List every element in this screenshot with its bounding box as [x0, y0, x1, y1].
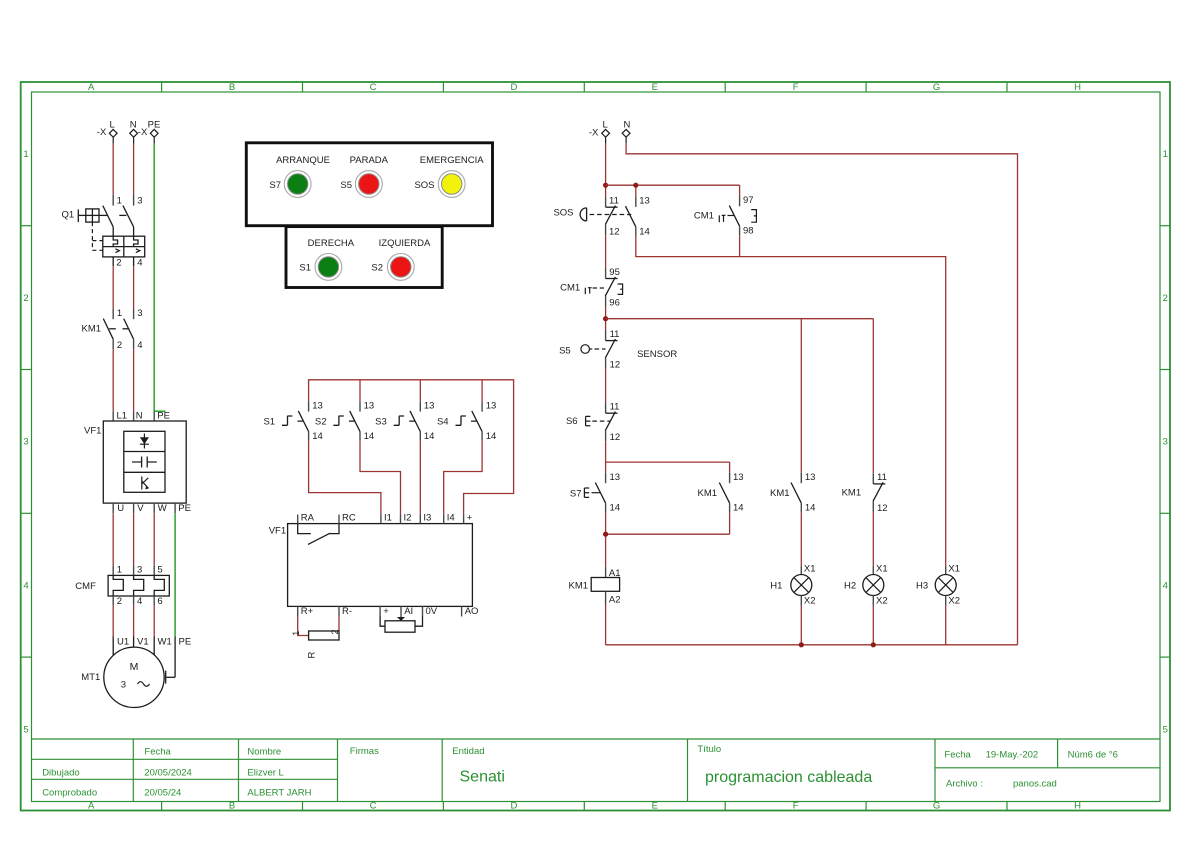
- svg-text:V: V: [137, 503, 144, 514]
- pushbutton S2 contact 13-14: [315, 400, 374, 442]
- svg-text:AO: AO: [465, 606, 479, 617]
- wire S3 to VF1 I3: [419, 441, 421, 515]
- wire PE to motor: [166, 637, 175, 684]
- svg-text:KM1: KM1: [698, 488, 718, 499]
- svg-text:Fecha: Fecha: [944, 749, 971, 760]
- svg-text:X1: X1: [948, 564, 960, 575]
- svg-text:A2: A2: [609, 594, 621, 605]
- svg-text:Firmas: Firmas: [350, 746, 379, 757]
- svg-text:Q1: Q1: [62, 210, 75, 221]
- wire CM1 98 down to rung: [739, 235, 741, 256]
- svg-text:4: 4: [137, 257, 142, 268]
- VF1 terminal I4: [444, 513, 455, 524]
- svg-text:R: R: [307, 652, 318, 659]
- svg-text:X2: X2: [948, 595, 960, 606]
- svg-text:W: W: [158, 503, 167, 514]
- pushbutton S2 (IZQUIERDA): [371, 254, 414, 281]
- svg-text:S1: S1: [263, 417, 275, 428]
- wire R+ to braking resistor: [298, 617, 309, 636]
- svg-text:Senati: Senati: [460, 769, 505, 786]
- wire rung 2 (to KM1 contacts): [606, 319, 874, 474]
- svg-text:ALBERT JARH: ALBERT JARH: [247, 788, 311, 799]
- svg-text:V1: V1: [137, 637, 149, 648]
- svg-text:CMF: CMF: [75, 581, 96, 592]
- svg-text:13: 13: [424, 400, 435, 411]
- VF1 terminal I2: [401, 513, 412, 524]
- VF1 internal relay contact RA-RC: [298, 524, 339, 545]
- svg-text:G: G: [933, 82, 940, 93]
- VF1 terminal R+: [298, 606, 314, 617]
- svg-text:11: 11: [877, 472, 887, 483]
- svg-text:1: 1: [117, 196, 122, 207]
- node junction SOS 13 branch: [633, 183, 638, 188]
- emergency stop SOS NC contact 11-12: [605, 196, 619, 238]
- svg-text:13: 13: [639, 196, 650, 207]
- svg-text:A1: A1: [609, 568, 621, 579]
- svg-text:I1: I1: [384, 513, 392, 524]
- wire Q1 to KM1 (pole 1): [112, 266, 114, 308]
- svg-text:+: +: [383, 606, 389, 617]
- svg-text:Nombre: Nombre: [247, 747, 281, 758]
- node junction L / rung 1: [603, 183, 608, 188]
- svg-text:M: M: [130, 661, 139, 673]
- svg-text:1: 1: [117, 308, 122, 319]
- coil KM1: [569, 567, 621, 605]
- thermal relay CM1 NC contact 95-96: [560, 267, 623, 309]
- svg-text:4: 4: [137, 340, 142, 351]
- svg-text:S3: S3: [375, 417, 387, 428]
- wire VF1 W to CMF: [153, 513, 155, 565]
- wire H2 to N rail: [872, 606, 874, 645]
- svg-text:VF1: VF1: [269, 526, 286, 537]
- VF1 terminal AI: [401, 606, 413, 617]
- contactor KM1 aux NC contact 11-12 (to H2): [842, 472, 888, 514]
- svg-text:E: E: [652, 82, 658, 93]
- wire bus drop S3: [419, 380, 421, 402]
- contactor KM1 main contacts: [82, 308, 143, 351]
- svg-text:2: 2: [117, 596, 122, 607]
- svg-text:-X: -X: [138, 127, 148, 138]
- pushbutton S7 NO contact 13-14: [595, 472, 620, 514]
- svg-text:2: 2: [1163, 293, 1168, 304]
- svg-text:KM1: KM1: [842, 488, 862, 499]
- svg-text:S5: S5: [340, 180, 352, 191]
- svg-text:98: 98: [743, 226, 754, 237]
- svg-text:D: D: [510, 82, 517, 93]
- svg-text:A: A: [88, 801, 95, 812]
- svg-text:D: D: [510, 801, 517, 812]
- wire KM1 NC to H2: [872, 512, 874, 566]
- svg-text:11: 11: [609, 196, 619, 207]
- wire VF1 V to CMF: [133, 513, 135, 565]
- svg-text:MT1: MT1: [81, 672, 100, 683]
- svg-text:13: 13: [364, 400, 375, 411]
- VF1 terminal + (bottom): [380, 606, 389, 617]
- wire KM1 aux to H1: [800, 512, 802, 566]
- svg-text:3: 3: [137, 308, 142, 319]
- svg-text:1: 1: [291, 631, 301, 636]
- contactor CMF contacts: [75, 565, 169, 608]
- svg-text:2: 2: [116, 257, 121, 268]
- svg-text:KM1: KM1: [770, 488, 790, 499]
- svg-text:SOS: SOS: [414, 180, 434, 191]
- wire L phase to Q1: [112, 144, 114, 195]
- wire bus drop S2: [359, 380, 361, 402]
- svg-text:U1: U1: [117, 637, 129, 648]
- pushbutton SOS (EMERGENCIA): [414, 171, 465, 198]
- svg-text:RA: RA: [301, 513, 315, 524]
- svg-text:VF1: VF1: [84, 426, 101, 437]
- pushbutton panel ARRANQUE/PARADA/EMERGENCIA: [246, 143, 492, 226]
- svg-text:E: E: [652, 801, 658, 812]
- svg-text:A: A: [88, 82, 95, 93]
- svg-text:X2: X2: [804, 595, 816, 606]
- svg-text:2: 2: [117, 340, 122, 351]
- pushbutton S1 contact 13-14: [263, 400, 322, 442]
- node junction H2 on rail: [871, 642, 876, 647]
- wire VF1 U to CMF: [112, 513, 114, 565]
- svg-text:3: 3: [121, 680, 126, 691]
- svg-text:12: 12: [610, 432, 621, 443]
- braking resistor R: [291, 629, 340, 658]
- terminal -X L (control): [589, 119, 610, 143]
- svg-text:H: H: [1074, 801, 1081, 812]
- svg-text:Comprobado: Comprobado: [42, 788, 97, 799]
- svg-text:0V: 0V: [426, 606, 438, 617]
- node junction seal-in: [603, 532, 608, 537]
- svg-text:14: 14: [312, 431, 323, 442]
- svg-text:ARRANQUE: ARRANQUE: [276, 155, 330, 166]
- svg-text:R-: R-: [342, 606, 352, 617]
- svg-text:CM1: CM1: [560, 283, 580, 294]
- wire Q1 to KM1 (pole 2): [133, 266, 135, 308]
- svg-text:L: L: [603, 119, 608, 130]
- svg-text:S6: S6: [566, 416, 578, 427]
- wire CM1 96 to junction: [605, 307, 607, 331]
- svg-text:PE: PE: [148, 119, 161, 130]
- svg-text:G: G: [933, 801, 940, 812]
- svg-text:12: 12: [609, 226, 620, 237]
- svg-text:5: 5: [1163, 724, 1168, 735]
- emergency stop SOS NO contact 13-14: [626, 196, 650, 238]
- potentiometer on AI: [380, 617, 422, 633]
- svg-text:AI: AI: [404, 606, 413, 617]
- svg-text:2: 2: [330, 629, 340, 634]
- VF1 terminal R-: [339, 606, 352, 617]
- wire CMF to motor W1: [153, 605, 155, 655]
- svg-text:PE: PE: [179, 637, 192, 648]
- svg-text:Archivo :: Archivo :: [946, 779, 983, 790]
- svg-text:W1: W1: [158, 637, 172, 648]
- wire S5 to S6: [605, 369, 607, 403]
- svg-text:5: 5: [23, 724, 28, 735]
- VF1 terminal RA: [298, 513, 315, 524]
- svg-text:6: 6: [157, 596, 162, 607]
- svg-text:RC: RC: [342, 513, 356, 524]
- svg-text:12: 12: [610, 360, 621, 371]
- svg-text:14: 14: [424, 431, 435, 442]
- lamp H3: [916, 564, 960, 607]
- svg-text:1: 1: [23, 149, 28, 160]
- terminal -X L: [97, 119, 117, 144]
- svg-text:PARADA: PARADA: [350, 155, 389, 166]
- svg-text:Entidad: Entidad: [452, 746, 484, 757]
- wire H3 to N rail: [945, 606, 947, 645]
- svg-text:4: 4: [23, 581, 28, 592]
- svg-text:S2: S2: [315, 417, 327, 428]
- contactor KM1 aux NO contact 13-14 (to H1): [770, 472, 815, 514]
- svg-text:Núm6 de °6: Núm6 de °6: [1068, 749, 1118, 760]
- svg-text:+: +: [467, 513, 473, 524]
- svg-text:I2: I2: [404, 513, 412, 524]
- svg-text:PE: PE: [157, 410, 170, 421]
- wire PE down to VF1: [154, 144, 165, 411]
- wire bottom N return rail: [606, 644, 1018, 646]
- wire S6 to S7 with seal-in branch: [606, 441, 730, 473]
- node junction rung 2: [603, 316, 608, 321]
- VFD VF1 control section: [269, 524, 473, 607]
- wire SOS 12 to CM1 95: [605, 235, 607, 268]
- wire S4 to VF1 I4: [444, 441, 482, 515]
- wire bus drop S4: [481, 380, 483, 402]
- wire rung 1 (to CM1 97): [606, 185, 740, 196]
- svg-text:programacion cableada: programacion cableada: [705, 769, 872, 786]
- svg-text:14: 14: [639, 226, 650, 237]
- svg-text:CM1: CM1: [694, 210, 714, 221]
- lamp H2: [844, 564, 888, 607]
- svg-text:11: 11: [610, 329, 620, 340]
- svg-text:KM1: KM1: [569, 580, 589, 591]
- wire N rail to right side: [626, 144, 1017, 645]
- svg-text:R+: R+: [301, 606, 314, 617]
- sensor S5 NC contact 11-12: [605, 329, 620, 371]
- pushbutton panel DERECHA/IZQUIERDA: [286, 227, 442, 288]
- svg-text:DERECHA: DERECHA: [308, 238, 355, 249]
- VFD VF1 power section: [84, 410, 191, 514]
- svg-text:20/05/24: 20/05/24: [144, 788, 181, 799]
- wire KM1 coil to N rail: [605, 605, 607, 645]
- svg-text:13: 13: [312, 400, 323, 411]
- svg-text:N: N: [136, 410, 143, 421]
- VF1 terminal I1: [381, 513, 392, 524]
- svg-text:14: 14: [610, 503, 621, 514]
- svg-text:13: 13: [610, 472, 621, 483]
- switch S6 NC contact 11-12: [605, 402, 620, 444]
- svg-text:I3: I3: [423, 513, 431, 524]
- wire R- to braking resistor: [338, 617, 340, 632]
- svg-text:I4: I4: [447, 513, 455, 524]
- wire control bus (top): [309, 380, 514, 515]
- wire CMF to motor U1: [112, 605, 114, 655]
- svg-text:S2: S2: [371, 263, 383, 274]
- terminal PE: [148, 119, 161, 144]
- wire KM1 to VF1 (pole 1): [112, 349, 114, 411]
- svg-text:KM1: KM1: [82, 324, 102, 335]
- pushbutton S7 (ARRANQUE): [269, 171, 311, 198]
- svg-text:H3: H3: [916, 580, 928, 591]
- lamp H1: [770, 564, 815, 607]
- svg-text:PE: PE: [178, 503, 191, 514]
- svg-text:2: 2: [23, 293, 28, 304]
- svg-text:C: C: [370, 801, 377, 812]
- svg-text:B: B: [229, 82, 235, 93]
- pushbutton S7 actuator: [570, 488, 600, 500]
- svg-text:1: 1: [1163, 149, 1168, 160]
- svg-text:L1: L1: [117, 410, 128, 421]
- svg-text:-X: -X: [589, 128, 599, 139]
- svg-text:N: N: [130, 119, 137, 130]
- svg-text:-X: -X: [97, 127, 107, 138]
- svg-text:C: C: [370, 82, 377, 93]
- svg-text:SENSOR: SENSOR: [637, 349, 677, 360]
- svg-text:panos.cad: panos.cad: [1013, 779, 1057, 790]
- sensor S5 actuator: [559, 345, 605, 357]
- wire CMF to motor V1: [133, 605, 135, 647]
- svg-text:X1: X1: [876, 564, 888, 575]
- switch S6 actuator: [566, 416, 611, 427]
- svg-text:S1: S1: [299, 263, 311, 274]
- svg-text:L: L: [110, 119, 115, 130]
- svg-text:12: 12: [877, 503, 888, 514]
- svg-text:1: 1: [117, 565, 122, 576]
- terminal N (control): [622, 119, 630, 143]
- svg-text:EMERGENCIA: EMERGENCIA: [420, 155, 485, 166]
- wire SOS 14 rung to H3 drop: [636, 236, 946, 566]
- svg-text:5: 5: [157, 565, 162, 576]
- svg-text:X1: X1: [804, 564, 816, 575]
- svg-text:14: 14: [805, 503, 816, 514]
- svg-text:13: 13: [486, 400, 497, 411]
- svg-text:S4: S4: [437, 417, 449, 428]
- VF1 terminal RC: [339, 513, 356, 524]
- VF1 terminal I3: [420, 513, 431, 524]
- svg-text:Título: Título: [697, 744, 721, 755]
- svg-text:13: 13: [805, 472, 816, 483]
- svg-text:S7: S7: [269, 180, 281, 191]
- svg-text:Dibujado: Dibujado: [42, 767, 79, 778]
- svg-text:S5: S5: [559, 346, 571, 357]
- svg-text:11: 11: [610, 402, 620, 413]
- breaker Q1: [62, 194, 145, 268]
- svg-text:14: 14: [486, 431, 497, 442]
- VF1 terminal + (top): [464, 513, 473, 524]
- wire H1 to N rail: [800, 606, 802, 645]
- svg-text:4: 4: [137, 596, 142, 607]
- svg-text:Fecha: Fecha: [144, 747, 171, 758]
- wire N phase to Q1: [133, 144, 135, 195]
- svg-text:F: F: [793, 82, 799, 93]
- svg-text:H2: H2: [844, 580, 856, 591]
- svg-text:13: 13: [733, 472, 744, 483]
- svg-text:20/05/2024: 20/05/2024: [144, 767, 192, 778]
- svg-text:96: 96: [609, 298, 620, 309]
- pushbutton S4 contact 13-14: [437, 400, 496, 442]
- svg-text:B: B: [229, 801, 235, 812]
- svg-text:SOS: SOS: [553, 208, 573, 219]
- svg-text:14: 14: [364, 431, 375, 442]
- svg-text:IZQUIERDA: IZQUIERDA: [379, 238, 431, 249]
- wire S2 to VF1 I2: [360, 441, 401, 515]
- svg-text:95: 95: [609, 267, 620, 278]
- wire KM1 to VF1 (pole 2): [133, 349, 135, 411]
- pushbutton S5 (PARADA): [340, 171, 382, 198]
- pushbutton S1 (DERECHA): [299, 254, 341, 281]
- svg-text:14: 14: [733, 503, 744, 514]
- svg-text:H: H: [1074, 82, 1081, 93]
- svg-text:S7: S7: [570, 489, 582, 500]
- svg-text:U: U: [117, 503, 124, 514]
- pushbutton S3 contact 13-14: [375, 400, 434, 442]
- motor MT1: [81, 637, 191, 708]
- svg-text:F: F: [793, 801, 799, 812]
- svg-text:19-May.-202: 19-May.-202: [986, 749, 1039, 760]
- emergency stop SOS mushroom actuator: [553, 208, 631, 221]
- svg-text:3: 3: [1163, 437, 1168, 448]
- svg-text:4: 4: [1163, 581, 1168, 592]
- VF1 terminal AO: [462, 606, 479, 617]
- svg-text:3: 3: [137, 565, 142, 576]
- contactor KM1 aux NO contact 13-14 (seal-in): [698, 472, 744, 514]
- svg-text:X2: X2: [876, 595, 888, 606]
- svg-text:3: 3: [23, 437, 28, 448]
- terminal -X N: [130, 119, 148, 144]
- svg-text:N: N: [623, 119, 630, 130]
- svg-text:H1: H1: [770, 580, 782, 591]
- svg-text:97: 97: [743, 195, 754, 206]
- wire S1 to VF1 I1: [309, 441, 381, 515]
- wire VF1 PE out: [174, 513, 176, 636]
- thermal relay CM1 NO contact 97-98: [694, 195, 757, 237]
- wire seal-in bottom rung: [606, 512, 730, 567]
- node junction H1 on rail: [799, 642, 804, 647]
- wire L rail top: [605, 144, 607, 197]
- svg-text:3: 3: [137, 196, 142, 207]
- VF1 terminal 0V: [423, 606, 438, 617]
- svg-text:Elizver L: Elizver L: [247, 767, 283, 778]
